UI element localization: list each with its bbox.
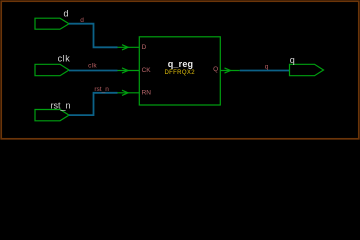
svg-text:RN: RN [142,89,152,96]
svg-text:rst_n: rst_n [94,86,109,93]
svg-text:DFFRQX2: DFFRQX2 [164,70,195,76]
wire net rst_n [69,93,118,115]
svg-text:clk: clk [58,53,71,63]
pin stub D with arrow [118,45,140,50]
wire net clk [69,70,118,72]
input port rst_n [35,110,69,121]
pin stub Q with arrow [220,68,240,73]
flip-flop U q_reg body [139,37,220,105]
input port clk [35,64,69,75]
svg-text:Q: Q [213,66,218,73]
wire net d [69,24,118,48]
svg-text:rst_n: rst_n [50,100,70,110]
svg-text:CK: CK [142,67,152,74]
svg-text:q_reg: q_reg [168,59,194,69]
input port d [35,18,69,29]
svg-text:D: D [142,44,147,51]
pin stub RN with arrow [118,90,140,95]
output port q [290,64,324,75]
svg-text:clk: clk [88,62,97,69]
svg-text:d: d [80,17,84,24]
pin stub CK with arrow [118,68,140,73]
svg-text:q: q [265,64,269,71]
svg-text:d: d [63,9,68,19]
frame border [1,1,359,139]
wire net q [240,70,290,72]
svg-text:q: q [290,55,295,65]
